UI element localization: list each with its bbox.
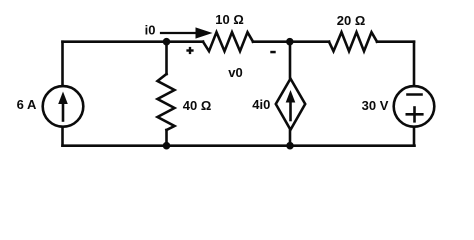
svg-text:6 A: 6 A xyxy=(17,97,37,112)
wire right vertical: voltage source to bottom wire xyxy=(413,127,416,146)
wire branch 40-ohm: resistor to bottom node xyxy=(165,130,168,146)
wire branch dependent source: diamond to bottom node xyxy=(289,131,292,146)
voltage source minus sign xyxy=(408,93,422,96)
current source I1 arrow shaft xyxy=(62,98,65,121)
dependent source arrow shaft xyxy=(289,97,292,120)
svg-text:i0: i0 xyxy=(145,23,156,38)
svg-text:10 Ω: 10 Ω xyxy=(215,12,244,27)
node dot top-right (dependent source branch) xyxy=(286,38,294,46)
wire branch dependent source: top node to diamond xyxy=(289,42,292,78)
node dot bottom-left (40-ohm branch) xyxy=(163,142,171,150)
dependent source diamond xyxy=(276,79,305,130)
svg-text:20 Ω: 20 Ω xyxy=(337,13,366,28)
svg-text:v0: v0 xyxy=(228,65,242,80)
wire top: left corner to 10-ohm resistor xyxy=(63,40,204,43)
svg-text:4i0: 4i0 xyxy=(252,97,270,112)
wire left vertical: top corner down to current source xyxy=(61,42,64,86)
node dot bottom-right (dependent source branch) xyxy=(286,142,294,150)
wire bottom xyxy=(63,144,415,147)
wire left vertical: current source to bottom wire xyxy=(61,127,64,146)
voltage source V1 circle xyxy=(394,86,435,127)
resistor R 40 ohm xyxy=(158,74,175,130)
i0 arrow shaft xyxy=(161,32,198,34)
dependent source arrow head xyxy=(286,90,296,103)
minus label of v0 xyxy=(270,51,275,54)
resistor R 10 ohm xyxy=(203,32,253,51)
node dot top-left (40-ohm branch) xyxy=(163,38,171,46)
wire top: between 10-ohm and 20-ohm resistors xyxy=(253,40,329,43)
svg-text:30 V: 30 V xyxy=(362,98,389,113)
i0 arrow head xyxy=(196,27,213,38)
wire top: 20-ohm resistor to right corner xyxy=(377,40,414,43)
svg-text:40 Ω: 40 Ω xyxy=(183,98,212,113)
current source I1 circle xyxy=(43,86,84,127)
current source I1 arrow head xyxy=(58,92,68,105)
voltage source plus sign xyxy=(407,113,423,116)
plus label of v0 xyxy=(186,49,193,51)
wire branch 40-ohm: top node down to resistor xyxy=(165,42,168,74)
wire right vertical: top corner down to voltage source xyxy=(413,42,416,86)
resistor R 20 ohm xyxy=(329,32,377,51)
